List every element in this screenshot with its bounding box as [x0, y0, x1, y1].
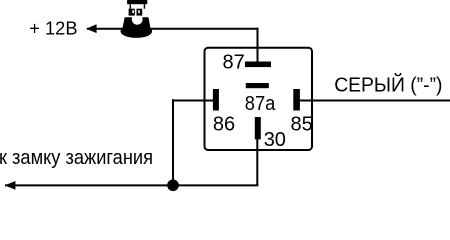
wire: +12V feed, horizontal top: [87, 28, 258, 30]
pin 85: [293, 89, 300, 111]
svg-text:30: 30: [264, 129, 286, 151]
wire: pin 30 down: [256, 139, 258, 186]
pin 87: [245, 62, 271, 68]
fuse F1 (blade fuse): [127, 0, 147, 16]
wire: vertical drop from 86 wire: [172, 99, 174, 185]
pin 87a: [246, 83, 269, 88]
svg-text:+ 12В: + 12В: [29, 18, 77, 38]
svg-text:86: 86: [213, 114, 235, 136]
svg-text:87: 87: [223, 52, 245, 74]
svg-text:85: 85: [291, 114, 313, 136]
wire: bottom run to ignition lock: [5, 184, 258, 186]
arrowhead to ignition lock: [5, 181, 16, 190]
svg-text:к замку зажигания: к замку зажигания: [0, 146, 153, 169]
fuse holder body: [121, 14, 153, 38]
wire: pin 85 to gray wire, to right edge: [300, 100, 450, 102]
junction node: [167, 179, 179, 191]
pin 30: [255, 117, 261, 139]
wire: top corner down to pin 87: [257, 28, 259, 63]
wire: 86 to ignition lock, horizontal into pin 86: [173, 100, 214, 102]
pin 86: [213, 89, 219, 111]
arrowhead to +12V: [86, 24, 97, 33]
relay U1 body: [205, 48, 313, 150]
svg-text:87a: 87a: [245, 93, 276, 115]
svg-text:СЕРЫЙ (”-”): СЕРЫЙ (”-”): [334, 73, 442, 97]
